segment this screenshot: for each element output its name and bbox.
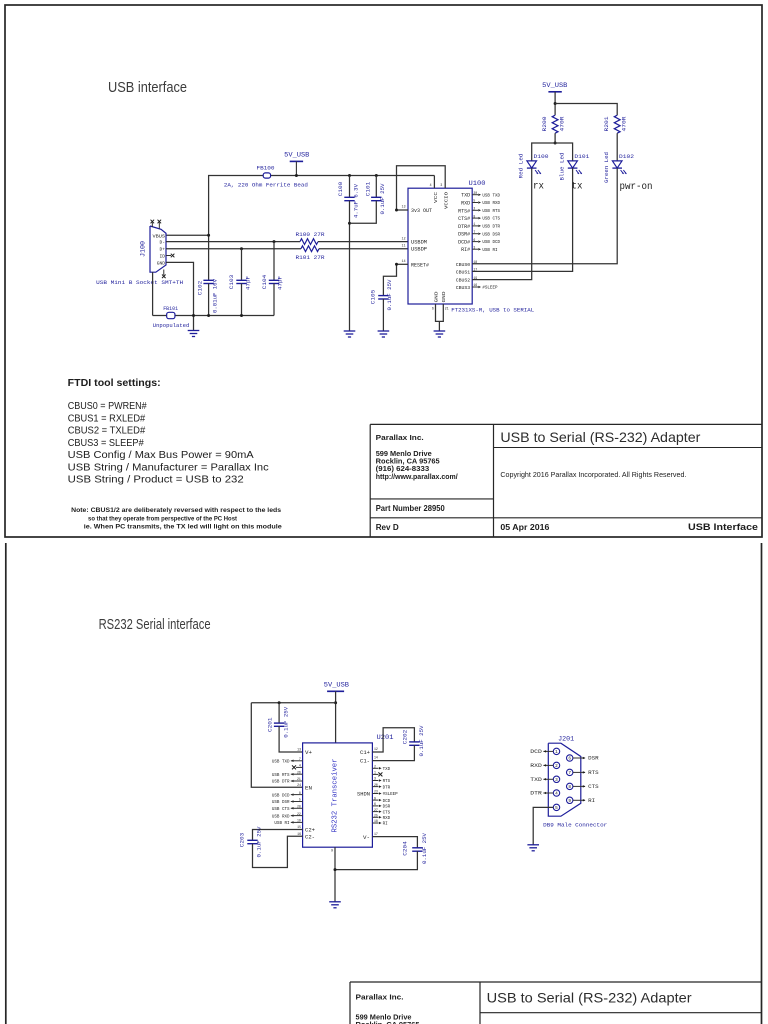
capacitor C105 0.1uF 25V on RESET#	[383, 264, 396, 295]
ground rail	[153, 315, 274, 317]
svg-text:14: 14	[374, 756, 378, 760]
svg-text:11: 11	[402, 244, 406, 248]
svg-text:USB DSR: USB DSR	[482, 233, 500, 237]
svg-text:J100: J100	[140, 241, 147, 257]
no-connect shield pin bottom of J100	[163, 270, 165, 276]
svg-text:5: 5	[555, 806, 558, 811]
svg-text:2: 2	[473, 207, 475, 211]
svg-text:USB Config / Max Bus Power = 9: USB Config / Max Bus Power = 90mA	[68, 450, 254, 461]
capacitor C101 0.1uF 25V	[375, 174, 378, 177]
svg-text:C101: C101	[364, 181, 371, 196]
svg-text:#SLEEP: #SLEEP	[482, 287, 498, 291]
svg-text:USB RTS: USB RTS	[482, 210, 500, 214]
svg-text:USB DSR: USB DSR	[272, 801, 290, 805]
wire D+ net	[166, 248, 301, 250]
wire 5V branch to C201 and EN rail	[251, 702, 335, 704]
svg-text:13: 13	[297, 748, 301, 752]
svg-text:RI: RI	[588, 798, 595, 804]
IC U201 RS232 Transceiver body	[303, 743, 373, 847]
svg-text:RXD: RXD	[530, 763, 542, 769]
svg-text:D102: D102	[619, 153, 634, 160]
svg-text:USB RI: USB RI	[482, 249, 498, 253]
wire R201 to pwr-on LED	[616, 133, 618, 161]
wire C2+ to C203	[253, 830, 303, 841]
DB9 pin 2 / net RXD	[553, 762, 559, 768]
ground symbol at U201	[329, 901, 341, 903]
svg-text:pwr-on: pwr-on	[620, 182, 653, 193]
svg-text:TXD: TXD	[461, 193, 470, 199]
svg-text:9: 9	[568, 799, 571, 804]
svg-text:RXD: RXD	[383, 817, 391, 821]
capacitor C202 0.1uF 25V	[409, 741, 419, 743]
svg-text:Part Number 28950: Part Number 28950	[376, 504, 445, 513]
no-connect ID pin of J100	[166, 255, 171, 257]
connector J100 USB Mini B Socket	[150, 226, 166, 272]
junction C100-C101 ground link	[348, 222, 351, 225]
svg-text:C202: C202	[401, 729, 408, 744]
ground symbol at C100	[344, 330, 356, 332]
svg-text:ID: ID	[159, 254, 165, 260]
svg-text:470R: 470R	[620, 116, 627, 131]
DB9 pin 7 / net RTS	[567, 769, 573, 775]
svg-text:47pF: 47pF	[244, 276, 251, 290]
svg-text:4.7uF 6.3V: 4.7uF 6.3V	[353, 184, 360, 218]
svg-text:21: 21	[297, 777, 301, 781]
svg-text:14: 14	[402, 259, 406, 263]
svg-text:Note: CBUS1/2 are deliberately: Note: CBUS1/2 are deliberately reversed …	[71, 507, 281, 514]
svg-text:470R: 470R	[558, 116, 565, 131]
svg-text:4: 4	[430, 183, 432, 187]
no-connect pin right of U201	[372, 773, 378, 775]
svg-text:1: 1	[374, 771, 376, 775]
pin 9 / net DCD	[372, 799, 378, 801]
svg-text:CBUS1: CBUS1	[456, 269, 471, 275]
svg-text:RS232 Serial interface: RS232 Serial interface	[99, 617, 211, 633]
svg-text:CBUS0: CBUS0	[456, 262, 471, 268]
ground symbol at C105	[378, 330, 390, 332]
svg-text:C201: C201	[266, 717, 273, 732]
LED D101 Blue Led	[568, 161, 578, 168]
svg-text:USB DTR: USB DTR	[482, 226, 500, 230]
svg-text:USB String / Product = USB to: USB String / Product = USB to 232	[68, 475, 244, 486]
pin 2 / net TXD	[372, 767, 378, 769]
svg-text:CBUS0 = PWREN#: CBUS0 = PWREN#	[68, 401, 147, 412]
svg-text:VCCIO: VCCIO	[444, 192, 450, 209]
svg-text:05 Apr 2016: 05 Apr 2016	[500, 522, 549, 532]
svg-text:CBUS3 = SLEEP#: CBUS3 = SLEEP#	[68, 438, 144, 449]
DB9 pin 4 / net DTR	[553, 790, 559, 796]
svg-text:D101: D101	[574, 153, 590, 160]
svg-text:USB RI: USB RI	[274, 822, 290, 826]
svg-text:15: 15	[297, 825, 301, 829]
svg-text:RXD: RXD	[461, 201, 470, 207]
svg-text:C105: C105	[370, 289, 377, 304]
svg-text:DSR: DSR	[588, 756, 599, 762]
DB9 pin 3 / net TXD	[553, 776, 559, 782]
svg-text:USB String / Manufacturer = Pa: USB String / Manufacturer = Parallax Inc	[68, 462, 269, 473]
svg-text:ie. When PC transmits, the TX: ie. When PC transmits, the TX led will l…	[84, 523, 282, 530]
capacitor C201 0.1uF 25V	[278, 703, 280, 723]
svg-text:C102: C102	[197, 280, 204, 295]
svg-text:Unpopulated: Unpopulated	[153, 322, 190, 329]
svg-text:VCC: VCC	[433, 192, 439, 203]
wire C1+ to C202	[372, 728, 414, 752]
DB9 pin 8 / net CTS	[567, 783, 573, 789]
svg-text:GND: GND	[441, 291, 447, 302]
capacitor C103 47pF	[240, 247, 243, 250]
svg-text:21: 21	[445, 307, 449, 311]
svg-text:USBDP: USBDP	[411, 247, 427, 253]
svg-text:47pF: 47pF	[277, 276, 284, 290]
svg-text:USB DTR: USB DTR	[272, 781, 290, 785]
svg-text:8: 8	[473, 214, 475, 218]
svg-text:12: 12	[374, 747, 378, 751]
svg-text:RI: RI	[383, 823, 389, 827]
svg-text:CTS: CTS	[383, 811, 391, 815]
svg-text:2: 2	[555, 764, 558, 769]
svg-text:FB101: FB101	[163, 305, 178, 312]
wire CBUS2 to rx LED	[472, 168, 532, 280]
svg-text:Parallax Inc.: Parallax Inc.	[356, 993, 404, 1002]
svg-text:RTS: RTS	[383, 780, 391, 784]
svg-text:12: 12	[402, 237, 406, 241]
svg-text:D-: D-	[159, 240, 165, 246]
svg-text:V+: V+	[305, 750, 312, 756]
wire CBUS0 to pwr-on LED	[472, 168, 617, 264]
connector J201 DB9	[548, 743, 581, 816]
svg-text:RTS: RTS	[588, 770, 599, 776]
svg-text:Green Led: Green Led	[603, 152, 610, 183]
svg-text:5V_USB: 5V_USB	[324, 681, 349, 688]
svg-text:DCD: DCD	[383, 800, 391, 804]
pin 18 / net RI	[372, 822, 378, 824]
svg-text:R201: R201	[603, 116, 610, 131]
svg-text:C204: C204	[402, 841, 409, 856]
svg-text:U201: U201	[377, 734, 394, 741]
svg-text:rx: rx	[533, 182, 544, 193]
svg-text:so that they operate from pers: so that they operate from perspective of…	[88, 515, 238, 522]
wire GND pin of J100	[166, 262, 194, 330]
svg-text:U100: U100	[469, 180, 486, 187]
svg-text:CBUS2 = TXLED#: CBUS2 = TXLED#	[68, 426, 146, 437]
pin 25 / net RXD	[372, 816, 378, 818]
junction rail-GND	[192, 314, 195, 317]
svg-text:C103: C103	[228, 274, 235, 289]
svg-text:VBUS: VBUS	[153, 233, 166, 239]
svg-text:6: 6	[568, 757, 571, 762]
svg-text:6: 6	[432, 307, 434, 311]
svg-text:5: 5	[473, 199, 475, 203]
svg-text:8: 8	[568, 785, 571, 790]
ferrite bead FB101 (unpopulated)	[167, 312, 175, 318]
svg-text:7: 7	[473, 230, 475, 234]
capacitor C203 0.1uF 25V	[247, 839, 257, 841]
svg-text:USB to Serial (RS-232) Adapter: USB to Serial (RS-232) Adapter	[487, 991, 693, 1006]
svg-text:C100: C100	[337, 181, 344, 196]
svg-text:USB CTS: USB CTS	[272, 808, 290, 812]
svg-text:5: 5	[299, 798, 301, 802]
svg-text:RTS#: RTS#	[458, 208, 470, 214]
svg-text:FT231XS-R, USB to SERIAL: FT231XS-R, USB to SERIAL	[451, 307, 534, 314]
pin 3 / net RTS	[372, 780, 378, 782]
svg-text:Parallax Inc.: Parallax Inc.	[376, 433, 424, 442]
svg-text:D+: D+	[159, 247, 165, 253]
svg-text:9: 9	[331, 849, 333, 853]
svg-text:DCD: DCD	[530, 749, 542, 755]
svg-text:USB RTS: USB RTS	[272, 774, 290, 778]
wire VCC pin	[433, 176, 435, 189]
svg-text:R101 27R: R101 27R	[296, 254, 325, 261]
svg-text:17: 17	[374, 832, 378, 836]
svg-text:CTS: CTS	[588, 784, 599, 790]
svg-text:7: 7	[299, 757, 301, 761]
svg-text:Copyright 2016 Parallax Incorp: Copyright 2016 Parallax Incorporated. Al…	[500, 470, 686, 479]
pin 6 / net DSR	[372, 805, 378, 807]
svg-text:FB100: FB100	[257, 164, 275, 171]
svg-text:DCD#: DCD#	[458, 240, 470, 246]
svg-text:Red Led: Red Led	[518, 154, 525, 179]
svg-text:R100 27R: R100 27R	[296, 231, 325, 238]
svg-text:4: 4	[555, 792, 558, 797]
svg-text:Blue Led: Blue Led	[558, 153, 565, 181]
svg-text:TXD: TXD	[530, 777, 542, 783]
svg-text:1: 1	[555, 750, 558, 755]
svg-text:USB TXD: USB TXD	[272, 761, 290, 765]
svg-text:V-: V-	[363, 835, 370, 841]
svg-text:5V_USB: 5V_USB	[284, 152, 309, 159]
DB9 pin 6 / net DSR	[567, 755, 573, 761]
svg-text:DTR: DTR	[383, 786, 391, 790]
svg-text:18: 18	[374, 819, 378, 823]
wire D- net	[166, 241, 300, 243]
wire CBUS1 to tx LED	[472, 168, 572, 271]
svg-text:USB TXD: USB TXD	[482, 194, 500, 198]
svg-text:USB Interface: USB Interface	[688, 522, 758, 533]
svg-text:R200: R200	[541, 116, 548, 131]
capacitor C204 0.1uF 25V	[412, 847, 422, 849]
junction VBUS-C102	[207, 234, 210, 237]
svg-text:J201: J201	[558, 735, 574, 742]
DB9 pin 1 / net DCD	[553, 748, 559, 754]
svg-text:EN: EN	[305, 785, 312, 791]
svg-text:USB DCD: USB DCD	[272, 794, 290, 798]
junction 5V branch	[334, 701, 337, 704]
svg-text:7: 7	[568, 771, 571, 776]
svg-text:RS232 Transceiver: RS232 Transceiver	[332, 759, 340, 833]
capacitor C104 47pF	[273, 240, 276, 243]
svg-text:C203: C203	[239, 832, 246, 847]
svg-text:0.01uF 16V: 0.01uF 16V	[211, 279, 218, 313]
svg-text:http://www.parallax.com/: http://www.parallax.com/	[376, 472, 458, 481]
svg-text:2: 2	[374, 765, 376, 769]
svg-text:5V_USB: 5V_USB	[542, 82, 567, 89]
svg-text:0.1uF 25V: 0.1uF 25V	[255, 826, 262, 857]
svg-text:RESET#: RESET#	[411, 262, 429, 268]
svg-text:CBUS3: CBUS3	[456, 285, 471, 291]
svg-text:DTR: DTR	[530, 791, 542, 797]
svg-text:SHDN: SHDN	[357, 791, 370, 797]
pin 20 / net DTR	[372, 786, 378, 788]
svg-text:USB RXD: USB RXD	[482, 202, 500, 206]
svg-text:3: 3	[440, 183, 442, 187]
wire D+ to USBDP	[319, 248, 408, 250]
svg-text:#SLEEP: #SLEEP	[383, 793, 399, 797]
svg-text:3v3 OUT: 3v3 OUT	[411, 208, 432, 214]
svg-text:RI#: RI#	[461, 247, 470, 253]
svg-text:Rocklin, CA 95765: Rocklin, CA 95765	[356, 1020, 420, 1024]
svg-text:23: 23	[374, 790, 378, 794]
svg-text:27: 27	[374, 808, 378, 812]
junction 5V power tap	[295, 174, 298, 177]
svg-text:CBUS2: CBUS2	[456, 278, 471, 284]
wire R200 to rx/tx LEDs	[554, 133, 556, 143]
svg-text:22: 22	[297, 812, 301, 816]
no-connect shield pins top of J100	[151, 223, 153, 228]
svg-text:20: 20	[473, 191, 477, 195]
junction GND-C204	[334, 868, 337, 871]
resistor R200 470R	[552, 115, 558, 133]
svg-text:0.1uF 25V: 0.1uF 25V	[283, 706, 290, 737]
svg-text:CBUS1 = RXLED#: CBUS1 = RXLED#	[68, 413, 146, 424]
svg-text:GND: GND	[157, 260, 166, 266]
title block page 1	[370, 423, 762, 425]
ground symbol at J100	[188, 330, 200, 332]
svg-text:6: 6	[374, 802, 376, 806]
junction above R200	[554, 102, 557, 105]
pin 3v3 OUT	[397, 209, 409, 211]
ground symbol at U100	[434, 330, 446, 332]
wire 3v3OUT to VCCIO bridge	[397, 166, 446, 210]
svg-text:3: 3	[473, 245, 475, 249]
svg-text:USBDM: USBDM	[411, 240, 427, 246]
svg-text:1: 1	[473, 222, 475, 226]
svg-text:24: 24	[297, 783, 301, 787]
svg-text:C2+: C2+	[305, 828, 315, 834]
svg-text:DSR: DSR	[383, 806, 391, 810]
svg-text:C1+: C1+	[360, 750, 370, 756]
svg-text:USB DCD: USB DCD	[482, 241, 500, 245]
resistor R100 27R	[300, 239, 318, 245]
svg-text:13: 13	[402, 205, 406, 209]
svg-text:D100: D100	[534, 153, 550, 160]
LED D102 Green Led	[612, 161, 622, 168]
svg-text:0.1uF 25V: 0.1uF 25V	[418, 725, 425, 756]
svg-text:DTR#: DTR#	[458, 224, 470, 230]
svg-text:26: 26	[297, 770, 301, 774]
svg-text:GND: GND	[433, 291, 439, 302]
svg-text:25: 25	[374, 814, 378, 818]
svg-text:0.1uF 25V: 0.1uF 25V	[421, 833, 428, 864]
ferrite bead FB100	[263, 173, 270, 178]
DB9 pin 9 / net RI	[567, 797, 573, 803]
svg-text:2A, 220 Ohm Ferrite Bead: 2A, 220 Ohm Ferrite Bead	[224, 181, 308, 188]
svg-text:C1-: C1-	[360, 759, 370, 765]
svg-text:USB to Serial (RS-232) Adapter: USB to Serial (RS-232) Adapter	[500, 430, 700, 445]
svg-text:DB9 Male Connector: DB9 Male Connector	[543, 821, 607, 828]
svg-text:6: 6	[473, 238, 475, 242]
DB9 pin 5 / GND	[553, 804, 559, 810]
svg-text:0.1uF 25V: 0.1uF 25V	[386, 279, 393, 310]
resistor R101 27R	[301, 246, 319, 252]
ground symbol at J201	[527, 844, 539, 846]
wire shield to FB101	[152, 272, 154, 315]
IC U100 FT231XS body	[408, 188, 472, 304]
svg-text:28: 28	[297, 805, 301, 809]
pin RESET#	[397, 263, 409, 265]
svg-text:19: 19	[297, 819, 301, 823]
svg-text:20: 20	[374, 783, 378, 787]
wire VBUS riser and 5V rail	[166, 234, 209, 236]
resistor R201 470R	[614, 115, 620, 133]
svg-text:USB interface: USB interface	[108, 80, 187, 96]
svg-text:TXD: TXD	[383, 768, 391, 772]
svg-text:FTDI tool settings:: FTDI tool settings:	[68, 377, 161, 389]
wire to R201	[555, 104, 617, 116]
svg-text:8: 8	[299, 791, 301, 795]
svg-text:C104: C104	[261, 274, 268, 289]
svg-text:DSR#: DSR#	[458, 232, 470, 238]
svg-text:9: 9	[374, 796, 376, 800]
svg-text:Rev D: Rev D	[376, 522, 399, 532]
svg-text:16: 16	[297, 832, 301, 836]
svg-text:USB RXD: USB RXD	[272, 815, 290, 819]
svg-text:USB Mini B Socket SMT+TH: USB Mini B Socket SMT+TH	[96, 279, 183, 286]
svg-text:4: 4	[299, 764, 301, 768]
svg-text:USB CTS: USB CTS	[482, 218, 500, 222]
svg-text:CTS#: CTS#	[458, 216, 470, 222]
wire EN rail	[251, 703, 302, 788]
svg-text:0.1uF 25V: 0.1uF 25V	[379, 183, 386, 214]
LED D100 Red Led	[527, 161, 537, 168]
wire D- to USBDM	[318, 241, 408, 243]
capacitor C102 0.01uF 16V	[208, 235, 210, 280]
svg-text:3: 3	[555, 778, 558, 783]
pin 27 / net CTS	[372, 811, 378, 813]
svg-text:C2-: C2-	[305, 834, 315, 840]
capacitor C100 4.7uF 6.3V	[348, 174, 351, 177]
no-connect pin left of U201	[296, 766, 303, 768]
title block page 2	[350, 981, 762, 983]
svg-text:3: 3	[374, 777, 376, 781]
